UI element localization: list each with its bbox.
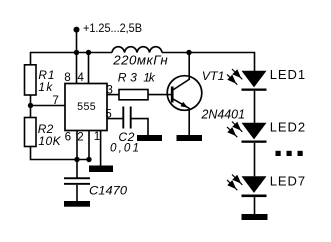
LED2 emission arrows xyxy=(227,122,242,138)
LED1 emission arrows xyxy=(227,69,242,85)
svg-text:10K: 10K xyxy=(38,134,61,148)
svg-text:2N4401: 2N4401 xyxy=(201,106,245,121)
svg-text:VT1: VT1 xyxy=(202,69,225,83)
node: R1/R2/pin7 junction xyxy=(28,103,33,108)
svg-text:LED1: LED1 xyxy=(270,67,305,82)
wire: supply drop to pin 8 xyxy=(76,30,78,84)
wire: emitter to ground xyxy=(188,108,190,135)
resistor R1 xyxy=(25,65,37,95)
capacitor C2 plates xyxy=(122,107,124,129)
svg-text:5: 5 xyxy=(105,107,112,120)
transistor VT1 circle xyxy=(167,76,202,111)
svg-text:0,01: 0,01 xyxy=(110,141,139,154)
svg-text:LED7: LED7 xyxy=(270,174,305,189)
IC U1 555 xyxy=(65,84,107,131)
pin 2 wire xyxy=(88,131,90,160)
svg-text:3: 3 xyxy=(106,84,113,97)
resistor R3 xyxy=(119,90,148,100)
svg-text:555: 555 xyxy=(77,101,96,113)
transistor emitter diagonal xyxy=(173,99,189,109)
svg-text:7: 7 xyxy=(52,94,59,107)
node: bus / pin8 junction xyxy=(74,50,79,55)
transistor collector diagonal xyxy=(173,80,189,91)
ground bar (emitter) xyxy=(177,135,203,141)
node: rail / pin2 junction xyxy=(86,157,91,162)
pin 6 wire xyxy=(76,131,78,160)
negative terminal bar xyxy=(242,214,268,220)
power terminal dot xyxy=(74,27,80,33)
resistor R2 xyxy=(25,118,37,147)
transistor emitter arrowhead xyxy=(181,102,188,108)
LED7 emission arrows xyxy=(227,175,242,191)
pin 4 wire xyxy=(88,53,90,84)
node: bus / collector junction xyxy=(186,50,191,55)
LED2 diode xyxy=(242,123,267,140)
ground bar (C1) xyxy=(64,201,90,207)
svg-text:1k: 1k xyxy=(143,70,155,84)
pin 5 stub xyxy=(107,118,123,120)
ground bar (pin 1) xyxy=(89,166,113,173)
wire: collector from bus xyxy=(188,53,190,81)
svg-text:LED2: LED2 xyxy=(270,120,305,135)
pin 1 wire xyxy=(100,131,102,166)
wire: C2 to ground xyxy=(131,119,148,135)
svg-text:8: 8 xyxy=(64,71,71,84)
capacitor C1 plates xyxy=(64,177,90,179)
svg-text:+1.25...2,5В: +1.25...2,5В xyxy=(83,21,142,35)
wire: LED1 to LED2 xyxy=(254,91,256,123)
wire: top bus left segment xyxy=(31,53,113,65)
wire: R1 to R2 xyxy=(30,95,32,118)
wire: C1 bottom to ground xyxy=(76,185,78,201)
inductor L1 xyxy=(112,47,162,53)
wire: R2 bottom to ground rail xyxy=(31,147,91,160)
wire: junction to pin 7 xyxy=(31,105,66,107)
ellipsis dots xyxy=(276,151,281,156)
wire: LED2 down through ellipsis xyxy=(254,143,256,177)
LED1 diode xyxy=(242,71,267,88)
svg-text:1: 1 xyxy=(94,130,101,143)
svg-text:2: 2 xyxy=(77,131,84,144)
svg-text:C1470: C1470 xyxy=(89,184,127,198)
wire: C1 stub from rail xyxy=(76,160,78,178)
svg-text:1k: 1k xyxy=(38,80,53,94)
wire: LED7 to negative terminal xyxy=(254,197,256,214)
wire: R3 to base xyxy=(148,94,172,96)
LED7 diode xyxy=(242,176,267,193)
svg-text:220мкГн: 220мкГн xyxy=(112,53,168,68)
transistor base bar xyxy=(171,87,174,103)
node: bus / pin4 junction xyxy=(86,50,91,55)
svg-text:4: 4 xyxy=(77,71,84,84)
wire: top bus right segment to LED column xyxy=(162,53,255,72)
pin 3 stub xyxy=(107,94,119,96)
svg-text:R3: R3 xyxy=(118,70,137,84)
ground bar (C2) xyxy=(137,135,162,141)
svg-text:6: 6 xyxy=(65,131,72,144)
node: rail / pin6 / C1 junction xyxy=(74,157,79,162)
